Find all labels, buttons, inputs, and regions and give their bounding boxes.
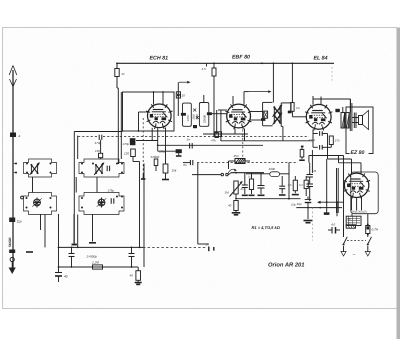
cap stack b [306, 183, 313, 185]
svg-text:10μ: 10μ [297, 202, 302, 206]
EZ80 top pins [351, 167, 353, 174]
resistor 47k small [215, 133, 218, 138]
gang dash to mains switch [311, 208, 313, 241]
svg-text:EBF 80: EBF 80 [232, 55, 250, 61]
ground blob osc [162, 179, 169, 181]
HT supply rail [117, 62, 334, 64]
grid cap EL84 [281, 176, 283, 186]
IF1 can A blob [181, 113, 186, 116]
EBF80 to IF3 wire b [250, 119, 261, 121]
terminal circle L3 [21, 196, 24, 199]
EZ80 anode drops [351, 197, 353, 210]
resistor grid EL84 [291, 103, 294, 112]
chain x133 down [132, 157, 134, 162]
wire x178 screen [177, 82, 179, 116]
anode wire up [313, 98, 351, 100]
EL84 bottom pin [312, 130, 314, 148]
antenna arrow up [9, 66, 17, 76]
svg-text:175p: 175p [108, 189, 115, 193]
AF bus [221, 140, 313, 142]
tube ECH81 [148, 104, 172, 128]
electrolytic 40 [58, 267, 60, 272]
IF1 can B [199, 103, 208, 127]
wire y162.8 [339, 162, 362, 164]
IF1 can B blob [207, 112, 212, 115]
svg-text:0,3: 0,3 [299, 184, 303, 187]
plug pin left [343, 246, 345, 252]
mains wire left [343, 226, 345, 238]
IF1 can A [183, 103, 192, 126]
IF1 center coil marks [193, 109, 196, 112]
tone cap 2 [260, 173, 262, 185]
grid line to tuner [74, 131, 122, 133]
terminal blob [9, 250, 15, 254]
svg-text:2,2M: 2,2M [91, 261, 99, 265]
resistor x214 [212, 68, 216, 76]
tube EL84 [306, 104, 331, 129]
tone cap 1 [244, 173, 246, 185]
anode lead [350, 99, 352, 113]
wire 25n left [229, 160, 236, 162]
speaker box [346, 107, 373, 154]
capacitor 4,0 [328, 229, 332, 231]
tube EBF80 [227, 104, 251, 128]
earth arrow down [11, 262, 13, 269]
svg-text:40: 40 [130, 274, 134, 278]
tone resistor [251, 173, 253, 179]
svg-text:11p: 11p [17, 220, 22, 224]
IF3 blob right [288, 111, 292, 114]
AVC vertical [77, 136, 79, 159]
capacitor 175p [110, 198, 112, 204]
svg-text:47k: 47k [211, 139, 216, 143]
blob under cans [193, 125, 197, 128]
label EZ 80 [350, 149, 369, 155]
resistor 10k [163, 164, 168, 173]
svg-text:1n: 1n [187, 138, 191, 142]
rail drop x214 [213, 63, 215, 68]
svg-text:5v: 5v [122, 72, 126, 76]
svg-text:25: 25 [312, 170, 316, 173]
svg-text:100n: 100n [269, 167, 276, 171]
svg-text:22000: 22000 [202, 115, 206, 124]
AVC dashed bus [103, 135, 309, 137]
svg-text:1700: 1700 [186, 115, 190, 122]
cap stack a [309, 163, 311, 174]
grid return vertical [73, 132, 75, 244]
dashed link mid [197, 162, 298, 164]
svg-text:170: 170 [335, 139, 340, 143]
fuse [367, 214, 369, 225]
page scan edge right [397, 28, 400, 339]
wire 100n [246, 173, 270, 175]
svg-text:Orion AR 201: Orion AR 201 [268, 262, 305, 269]
tuner block L3 (osc coil) [24, 193, 57, 215]
ECH81 top pin 2 [162, 92, 164, 104]
resistor below pot [234, 201, 238, 211]
AVC arrow into mixer [179, 81, 189, 83]
svg-text:250p: 250p [158, 149, 166, 153]
switch contacts [221, 173, 223, 175]
capacitor 11p [9, 218, 15, 223]
ECH81 top pin 1 [153, 92, 155, 105]
AF ground line [236, 198, 301, 200]
pot lead down [235, 194, 237, 199]
speaker leads [352, 117, 359, 119]
ECH81 left pin wire [139, 111, 149, 113]
contact dash [26, 251, 33, 253]
tuning gang dashed link [142, 118, 144, 174]
rail drop to R anode [116, 63, 118, 68]
antenna lead wire [12, 70, 14, 268]
EBF80 left pin [218, 109, 227, 111]
resistor 59k [154, 159, 158, 166]
svg-text:40: 40 [64, 275, 68, 279]
svg-text:0,7A: 0,7A [372, 228, 379, 232]
cap pair right [129, 253, 135, 255]
filter cap ground [307, 208, 309, 219]
switch right [368, 237, 372, 244]
tuner block L2 (RF coil) [79, 159, 124, 177]
long vert A [139, 162, 141, 248]
svg-text:4,5: 4,5 [202, 67, 207, 71]
resistor 5V dropper [115, 69, 119, 77]
mains wire right [367, 234, 369, 238]
svg-text:a: a [19, 134, 21, 138]
ground 40ohm [137, 280, 139, 281]
phono jack bars [208, 247, 210, 252]
wire 6n left [183, 162, 190, 164]
resistor 40ohm [137, 266, 139, 268]
tone line [231, 172, 265, 174]
pot ground [232, 212, 241, 214]
AVC dashes left [78, 135, 99, 137]
svg-text:EZ 80: EZ 80 [351, 150, 365, 156]
switch left [344, 237, 348, 244]
filter cap 10u [307, 197, 309, 200]
wire from speaker box [343, 156, 345, 238]
selector feed [351, 214, 353, 217]
capacitor 68p [176, 92, 180, 98]
vert x74 [73, 214, 75, 244]
svg-text:0,5: 0,5 [288, 184, 292, 187]
wire x289 down [288, 162, 290, 198]
capacitor 250p blob [158, 150, 176, 152]
resistor 0,3M [304, 180, 308, 188]
loudspeaker [359, 116, 363, 125]
capacitor 170p padder [106, 166, 108, 172]
capacitor 1n [189, 143, 191, 148]
capacitor 470p in grid line [98, 135, 100, 140]
transformer core lines [349, 99, 351, 131]
vert from L3 [58, 214, 60, 267]
wire 25n right [245, 160, 250, 162]
B+ line 2 [296, 207, 342, 209]
vert x312 [311, 150, 313, 173]
resistor 0,5M [293, 180, 297, 191]
IF1 can B top stub [203, 95, 205, 103]
cap pair left [69, 253, 75, 255]
wire y155.5 [309, 155, 344, 157]
EBF80 bottom pin 1 [234, 129, 236, 135]
ECH81 left pin drop [138, 112, 140, 131]
IF3 coil upper [274, 107, 280, 115]
plug pin right [367, 246, 369, 252]
svg-text:120: 120 [124, 152, 129, 156]
long vert B [143, 164, 145, 268]
svg-text:4n: 4n [241, 188, 244, 191]
IF3 bracket left [263, 101, 273, 103]
svg-text:R1 = 4,7/3,5 kΩ: R1 = 4,7/3,5 kΩ [252, 225, 281, 230]
EBF80 grid line [203, 133, 248, 135]
svg-text:501(7)501(7): 501(7)501(7) [352, 211, 367, 214]
osc block drop [44, 215, 46, 248]
corner wire right [198, 243, 209, 245]
IF3 bracket right [281, 102, 291, 104]
EL84 feed drop [291, 63, 293, 102]
block link wires [32, 177, 34, 193]
wire below dropper [116, 77, 118, 89]
screen feed vertical b [120, 92, 122, 159]
page frame top [2, 27, 397, 29]
aerial taps [13, 163, 16, 165]
EBF80 top pins [232, 96, 234, 105]
svg-text:sh: sh [206, 242, 210, 246]
IF3 blob left [261, 118, 265, 121]
AF takeoff line [192, 174, 221, 176]
bus1 solid [59, 246, 144, 248]
IF3 rail drop [272, 63, 274, 102]
pot wiper arrow [230, 183, 242, 197]
capacitor 170p blob [130, 142, 136, 145]
svg-text:2×500p: 2×500p [86, 255, 98, 259]
pot top curve [228, 169, 236, 173]
svg-text:10: 10 [182, 94, 186, 98]
gang dash below EL84 label [331, 67, 333, 82]
antenna series capacitor [10, 133, 16, 138]
svg-text:170p: 170p [123, 142, 130, 146]
ECH81 osc pin down [165, 128, 167, 165]
heater drop b [337, 168, 339, 213]
svg-text:0,1: 0,1 [248, 176, 252, 179]
resistor 170 [329, 136, 333, 145]
grid return ground [72, 244, 78, 246]
mains selector block [346, 216, 361, 225]
gang dash EBF [242, 130, 244, 161]
wire y159 [328, 158, 352, 160]
wire x214 down [213, 76, 215, 132]
svg-text:6n: 6n [183, 163, 187, 167]
resistor 130 [99, 153, 103, 157]
svg-text:ECH 81: ECH 81 [150, 56, 169, 62]
fb1 drop wire [327, 134, 329, 160]
svg-text:1M: 1M [225, 191, 230, 195]
tuner block L4 (osc coil) [79, 193, 124, 215]
svg-text:4,0: 4,0 [331, 223, 336, 227]
bus1 dashed to phono [143, 246, 206, 248]
resistor 120 [131, 149, 136, 157]
page frame bottom [2, 308, 397, 310]
page frame left [2, 28, 4, 310]
capacitor fb1 [313, 133, 318, 135]
EBF80 bottom pin 2 [244, 129, 246, 141]
capacitor 25n [235, 159, 245, 164]
EZ80 cathode drop [356, 198, 358, 211]
svg-text:~: ~ [353, 252, 356, 258]
transformer outline box [351, 172, 378, 214]
antenna arrowhead lower [10, 79, 17, 87]
svg-text:10k: 10k [172, 169, 177, 173]
capacitor 6n plates [189, 160, 191, 165]
osc wire [155, 166, 157, 172]
svg-text:π25n: π25n [309, 138, 316, 142]
grid box [214, 132, 222, 137]
wire to cathode blob [136, 140, 158, 142]
resistor 2,2M [93, 265, 103, 269]
IF3 coil lower [274, 115, 280, 123]
cathode capacitor blob [130, 138, 136, 142]
tube EZ80 [344, 173, 368, 197]
IF3 trimmer [264, 111, 268, 118]
switch dashed link [347, 240, 366, 242]
tuner bottom wire [40, 214, 42, 230]
output transformer secondary [346, 113, 350, 129]
capacitor fb2 [313, 146, 318, 148]
volume pot body [234, 181, 238, 194]
left pin drop b [220, 110, 222, 141]
vert x92 [92, 214, 94, 242]
diode line [158, 144, 263, 146]
svg-text:130: 130 [95, 149, 100, 153]
IF3 bottom stub [282, 126, 284, 140]
ECH81 bottom pin wire [157, 128, 159, 152]
cathode blob [335, 109, 339, 112]
screen feed vertical a [117, 88, 119, 163]
corner wire down [197, 163, 199, 244]
bus2 solid [59, 266, 137, 268]
svg-text:10μ: 10μ [291, 203, 296, 207]
heater drop a [336, 168, 338, 213]
vert x337 [336, 202, 338, 216]
left pin drop a [216, 110, 218, 134]
capacitor 100n [270, 172, 280, 177]
svg-text:EL 84: EL 84 [314, 56, 328, 62]
IF transformer 1 can outline [123, 92, 175, 131]
wire 130 [100, 140, 102, 154]
ground gang left [141, 178, 146, 180]
junction dots B+ [336, 201, 338, 203]
output transformer primary [341, 113, 345, 129]
svg-text:5MΩB: 5MΩB [8, 237, 12, 247]
250p ground [178, 153, 180, 155]
can B to EBF80 wire [212, 113, 227, 115]
anode arrow to IF3 [243, 92, 245, 96]
svg-text:40: 40 [228, 204, 232, 208]
svg-text:516kΩ: 516kΩ [151, 155, 161, 159]
resistor anode top [301, 146, 304, 148]
heater winding [346, 225, 355, 228]
svg-text:5,6: 5,6 [296, 107, 300, 110]
tuner block L1 (aerial coil) [24, 159, 57, 177]
B+ line 1 [319, 201, 344, 203]
terminal circle [10, 257, 14, 261]
svg-text:25n: 25n [233, 154, 239, 158]
rail tick [206, 63, 208, 66]
EBF80 to IF3 wire a [250, 111, 262, 113]
screen bypass drop [326, 159, 328, 212]
EL84 top pins [312, 96, 314, 105]
